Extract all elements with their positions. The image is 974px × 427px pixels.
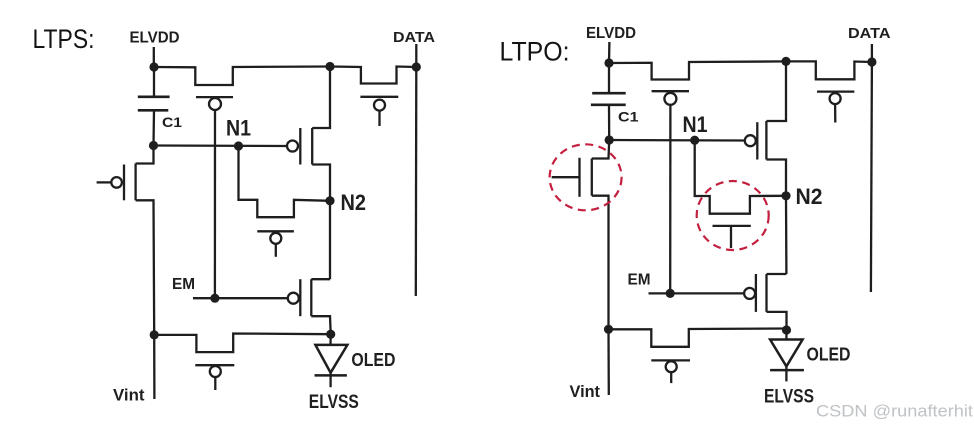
- wire N2 down to EM transistor (right): [785, 196, 788, 274]
- transistor drive channel (right): [765, 121, 767, 160]
- wire N1 horizontal line: [154, 144, 288, 147]
- transistor T1 drive: gate bubble: [287, 141, 298, 152]
- node N2 dot: [325, 196, 334, 205]
- highlight dashed circle around oxide T6: [550, 144, 622, 210]
- wire T1 source lead down to N2: [312, 165, 330, 201]
- wire bottom rail with Vint transistor channel (right): [609, 329, 787, 347]
- transistor oxide T6 source lead (right): [592, 196, 609, 330]
- transistor drive gate bubble (right): [745, 135, 756, 146]
- svg-text:ELVSS: ELVSS: [309, 392, 359, 413]
- transistor T7 gate bubble: [210, 366, 221, 377]
- wire T3 gate stub: [275, 244, 277, 257]
- transistor T1 channel: [311, 128, 313, 165]
- wire ELVDD lead: [153, 47, 155, 67]
- capacitor C1 top plate (right): [592, 92, 626, 95]
- wire T4 gate stub: [378, 111, 380, 126]
- svg-text:DATA: DATA: [393, 29, 435, 46]
- node bottom-left junction: [150, 330, 159, 339]
- node N1-branch junction (right): [605, 135, 614, 144]
- wire N1 branch down: [239, 146, 331, 217]
- wire EM line: [193, 297, 288, 299]
- transistor T5 channel: [310, 279, 312, 316]
- node N1 dot: [234, 141, 243, 150]
- svg-text:LTPS:: LTPS:: [33, 24, 95, 54]
- transistor T5 gate bar: [299, 279, 301, 316]
- wire T2 gate stem down to EM line: [214, 109, 216, 298]
- svg-text:Vint: Vint: [113, 386, 145, 405]
- transistor T6 gate bar: [123, 165, 125, 201]
- svg-text:N2: N2: [796, 184, 823, 209]
- diode OLED cathode bar (right): [770, 369, 804, 372]
- wire T7 gate stub: [214, 377, 216, 390]
- transistor EM drain lead (right): [767, 273, 787, 275]
- highlight dashed circle around oxide T3: [697, 181, 769, 250]
- svg-text:N1: N1: [226, 115, 251, 140]
- transistor T6 left: top lead from N1 junction: [136, 146, 154, 164]
- transistor oxide T6 top lead (right): [592, 140, 609, 159]
- wire rail to DATA with transistor channel (right): [786, 61, 872, 79]
- svg-text:ELVSS: ELVSS: [764, 387, 814, 408]
- capacitor C1 bottom plate (right): [591, 104, 626, 107]
- node EM junction (right): [666, 289, 675, 298]
- capacitor C1 bottom lead (right): [608, 105, 611, 140]
- node rail-drive junction: [325, 62, 334, 71]
- wire DATA lead: [415, 44, 417, 67]
- wire Vint branch (right): [607, 329, 610, 395]
- transistor drive gate bar (right): [756, 122, 758, 159]
- transistor T5 gate bubble: [288, 293, 299, 304]
- wire ELVDD lead (right): [608, 42, 611, 63]
- wire T6 gate stub: [97, 181, 112, 183]
- wire Vint gate stub (right): [670, 372, 672, 383]
- wire scan gate stem down to EM (right): [669, 104, 672, 293]
- diode OLED triangle (right): [770, 340, 803, 367]
- transistor EM channel (right): [765, 274, 767, 312]
- transistor T3 gate bubble: [270, 233, 281, 244]
- transistor T2 gate bubble: [209, 98, 221, 110]
- transistor EM gate bubble (right): [744, 288, 755, 299]
- capacitor C1 bottom plate: [138, 109, 169, 112]
- transistor data gate bar (right): [817, 90, 854, 92]
- wire DATA lead (right): [871, 44, 873, 62]
- transistor EM gate bar (right): [755, 274, 757, 312]
- diode OLED anode lead: [329, 334, 332, 345]
- svg-text:C1: C1: [618, 109, 639, 125]
- node OLED junction (right): [782, 325, 791, 334]
- wire Vint branch: [153, 335, 155, 399]
- node N2 dot (right): [781, 191, 790, 200]
- svg-text:OLED: OLED: [807, 345, 851, 365]
- transistor Vint gate bubble (right): [666, 361, 677, 372]
- node ELVDD junction (right): [604, 58, 613, 67]
- node DATA junction (right): [867, 57, 876, 66]
- wire drive source lead down to N2 (right): [766, 160, 786, 196]
- node N1-branch junction: [149, 141, 158, 150]
- wire top rail with scan transistor channel (right): [609, 61, 786, 79]
- diode OLED cathode stem: [329, 373, 331, 388]
- capacitor C1 top lead: [153, 67, 155, 97]
- node N1 dot (right): [690, 136, 699, 145]
- wire bottom rail with T7 Vint transistor channel: [154, 334, 331, 353]
- svg-text:EM: EM: [172, 276, 195, 293]
- wire EM line (right): [649, 292, 745, 294]
- node bottom-left junction (right): [604, 325, 613, 334]
- capacitor C1 bottom lead: [152, 110, 155, 145]
- node OLED junction: [326, 330, 335, 339]
- svg-text:CSDN @runafterhit: CSDN @runafterhit: [816, 403, 973, 421]
- transistor Vint gate bar (right): [651, 359, 690, 361]
- node EM junction: [210, 294, 219, 303]
- svg-text:N1: N1: [683, 112, 708, 137]
- transistor EM source lead (right): [767, 312, 787, 329]
- transistor scan gate bar (right): [652, 90, 689, 92]
- diode OLED anode lead (right): [785, 330, 787, 340]
- svg-text:N2: N2: [341, 190, 367, 215]
- svg-text:EM: EM: [628, 272, 651, 289]
- transistor T6 channel: [134, 164, 136, 201]
- node DATA junction: [412, 62, 421, 71]
- transistor oxide T3 gate bar (right): [713, 225, 751, 227]
- transistor T5 source lead: [311, 316, 330, 334]
- node ELVDD junction: [149, 62, 158, 71]
- svg-text:Vint: Vint: [570, 382, 601, 401]
- transistor T6 gate bubble: [111, 177, 122, 188]
- wire top rail with T2 scan transistor channel: [154, 67, 330, 86]
- transistor scan gate bubble (right): [664, 93, 676, 105]
- transistor T4 gate bar: [360, 96, 398, 98]
- wire data gate stub (right): [834, 104, 837, 122]
- diode OLED cathode bar: [315, 374, 347, 377]
- transistor T6 source lead: [136, 200, 155, 335]
- wire drive drain lead up (right): [766, 61, 786, 121]
- wire T1 drain lead up: [312, 67, 330, 129]
- svg-text:C1: C1: [162, 114, 182, 130]
- wire N1 branch down (right, oxide T3): [695, 140, 786, 214]
- transistor T3 gate bar: [257, 230, 294, 232]
- transistor oxide T3 gate stem T (right): [730, 226, 732, 248]
- svg-text:ELVDD: ELVDD: [130, 30, 180, 47]
- transistor T5 EM: drain lead: [311, 278, 330, 280]
- svg-text:OLED: OLED: [351, 350, 395, 370]
- capacitor C1 top lead (right): [608, 63, 610, 93]
- wire DATA column line (right): [871, 62, 872, 292]
- transistor oxide T6 gate bar (right): [578, 158, 580, 197]
- transistor oxide T6 channel (right): [591, 159, 593, 196]
- wire DATA column line: [415, 67, 418, 296]
- svg-text:ELVDD: ELVDD: [586, 25, 636, 42]
- svg-text:LTPO:: LTPO:: [500, 37, 570, 67]
- transistor T4 gate bubble: [374, 100, 385, 111]
- node rail-drive junction (right): [781, 57, 790, 66]
- wire N2 down to EM transistor: [329, 201, 331, 279]
- transistor T2 gate bar: [196, 96, 233, 98]
- wire oxide T6 gate lead (right): [552, 176, 580, 178]
- transistor T7 gate bar: [195, 364, 234, 366]
- capacitor C1 top plate: [138, 96, 170, 99]
- transistor T1 gate bar: [299, 128, 301, 165]
- wire N1 horizontal line (right): [609, 139, 744, 142]
- diode OLED triangle: [315, 345, 347, 373]
- diode OLED cathode stem (right): [785, 366, 787, 381]
- svg-text:DATA: DATA: [848, 25, 891, 42]
- wire rail to DATA with T4 transistor channel: [330, 67, 416, 84]
- transistor data gate bubble (right): [830, 93, 841, 104]
